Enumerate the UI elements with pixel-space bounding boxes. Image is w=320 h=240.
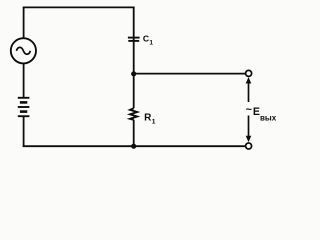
output terminal top bbox=[246, 70, 252, 76]
wire: junction to resistor R1 bbox=[133, 74, 135, 108]
wire: R1 bottom to bottom rail bbox=[133, 120, 135, 147]
battery GB long plate 1 bbox=[18, 97, 30, 99]
svg-text:1: 1 bbox=[152, 118, 156, 125]
wire: left rail top (source to top-left corner) bbox=[23, 7, 25, 38]
wire: bottom horizontal rail bbox=[23, 145, 246, 147]
resistor R1 zigzag bbox=[130, 108, 137, 120]
wire: source bottom to battery bbox=[23, 63, 25, 98]
battery GB short plate 2 bbox=[20, 110, 27, 113]
wire: top right vertical down to capacitor C1 bbox=[133, 7, 135, 75]
wire: top horizontal bbox=[23, 6, 135, 8]
wire: battery to bottom-left corner bbox=[23, 116, 25, 147]
node A: junction of C1, R1 and output wire bbox=[131, 71, 136, 76]
battery GB long plate 3 bbox=[18, 115, 30, 117]
wire: output top horizontal bbox=[134, 73, 246, 75]
node B: junction on bottom rail bbox=[131, 144, 136, 149]
output terminal bottom bbox=[246, 143, 252, 149]
svg-text:вых: вых bbox=[260, 114, 277, 123]
svg-text:C: C bbox=[143, 34, 149, 44]
label ~E вых bbox=[246, 104, 277, 122]
battery GB short plate 1 bbox=[20, 101, 27, 104]
svg-text:1: 1 bbox=[149, 40, 153, 47]
AC source G1 circle bbox=[11, 38, 36, 63]
battery GB long plate 2 bbox=[18, 106, 30, 108]
svg-text:E: E bbox=[253, 106, 260, 118]
svg-text:~: ~ bbox=[246, 104, 252, 116]
label R1 bbox=[144, 112, 156, 125]
arrow up (to top terminal) bbox=[246, 77, 252, 102]
arrow down (to bottom terminal) bbox=[246, 116, 252, 143]
AC source sine wave bbox=[16, 47, 30, 54]
label C1 bbox=[143, 34, 154, 47]
capacitor C1 plates bbox=[128, 38, 140, 41]
